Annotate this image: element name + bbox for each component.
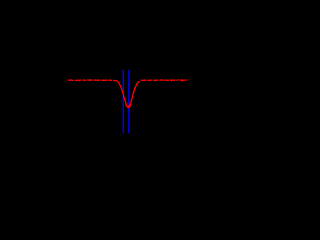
blue marker line right [128,70,130,133]
chart: absorption-dip spectrum trace on black background [0,0,269,205]
red data trace with absorption dip [68,79,187,107]
blue marker line left [122,70,124,133]
